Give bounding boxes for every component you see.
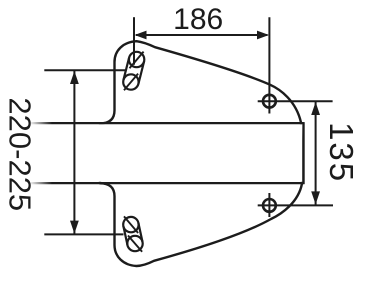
bottom slot upper circle [123,217,138,232]
svg-text:135: 135 [323,122,360,183]
186 dimension: right extension line [268,17,270,101]
top right hole [263,95,276,108]
spring band (leaf plate) white fill [30,124,302,182]
135 top arrowhead [311,102,320,115]
bottom hole vertical centerline [268,193,270,217]
svg-text:220-225: 220-225 [2,97,37,211]
186 dimension: left extension line [133,17,135,64]
186 dimension line [136,34,267,36]
bottom slot lower slash [128,236,142,252]
top slot lower circle [123,74,138,89]
top hole horizontal centerline / 135 extension [258,100,333,102]
135 dimension line [315,102,317,205]
top hole vertical centerline lower part [268,101,270,113]
top slot left tangent line [123,58,129,81]
top slot right tangent line [138,61,144,84]
top slot lower slash [124,74,138,91]
220-225 dimension line [73,71,75,234]
bottom slot right tangent line [138,223,142,242]
bottom right hole [263,199,276,212]
bottom slot left tangent line [123,226,127,245]
svg-text:186: 186 [173,3,223,36]
135 bottom arrowhead [311,191,320,204]
band top edge [31,122,304,124]
220-225 bottom arrowhead [70,221,79,234]
bottom slot lower circle [127,236,142,251]
bottom hole horizontal centerline / 135 extension [258,204,333,206]
186 left arrowhead [135,31,147,40]
band bottom edge [31,182,304,184]
top slot upper circle [129,52,144,67]
bracket plate outline [100,41,302,266]
bottom slot upper slash [124,216,138,233]
186 right arrowhead [257,31,269,40]
220-225 dimension: top extension line [44,69,125,71]
220-225 top arrowhead [70,71,79,84]
band right end edge [303,122,305,184]
top slot upper slash [130,52,144,69]
220-225 dimension: bottom extension line [44,233,123,235]
